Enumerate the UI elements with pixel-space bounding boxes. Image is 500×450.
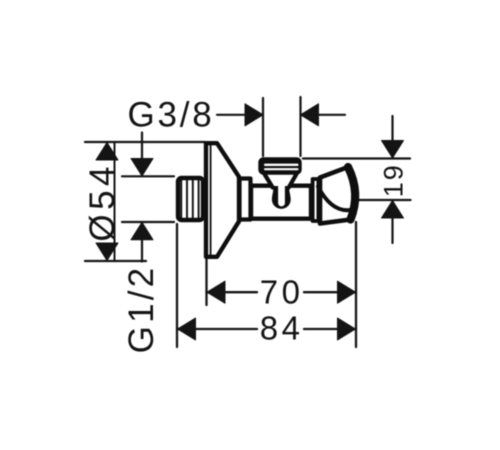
node: G3/8 right-pointing arrow	[245, 104, 263, 126]
outlet cap stripe 2	[264, 168, 299, 170]
node: 70 left arrow	[207, 281, 225, 303]
node: G3/8 left-pointing arrow	[301, 104, 319, 126]
node: Ø54 down arrow	[96, 243, 118, 261]
valve stem keyhole black	[272, 186, 291, 209]
thread lines	[180, 179, 182, 220]
node: 84 left arrow	[178, 318, 196, 340]
wire: G1/2 lower tail	[141, 240, 143, 261]
wire: Ø54 bottom extension line	[85, 260, 146, 262]
wire: Ø54 top extension line	[85, 141, 205, 143]
wire: 84 dimension line left part	[177, 328, 257, 330]
collar ring	[240, 179, 251, 220]
svg-text:84: 84	[260, 310, 304, 347]
wire: 19 top extension line	[303, 157, 410, 159]
outlet neck left slant	[265, 175, 273, 188]
wire: 70 left extension line	[205, 259, 207, 305]
handle right face crescent	[348, 167, 355, 220]
wire: Ø54 dimension line	[114, 142, 116, 261]
svg-text:Ø54: Ø54	[83, 162, 122, 242]
svg-text:G1/2: G1/2	[122, 265, 161, 354]
valve stem slot white	[278, 184, 285, 206]
wire: 70 dimension line left part	[207, 291, 258, 293]
wire: 70 dimension line right part	[304, 291, 356, 293]
wire: 19 bottom extension line	[359, 199, 411, 201]
svg-text:19: 19	[379, 163, 409, 197]
wire: 84 right extension line	[355, 222, 357, 347]
handle inner swoosh	[318, 187, 351, 211]
wire: G3/8 right extension line	[299, 97, 301, 156]
wire: G1/2 top extension line	[122, 175, 174, 177]
outlet cap body	[258, 157, 301, 174]
node: Ø54 up arrow	[96, 143, 118, 161]
wire: 19 upper tail	[391, 116, 393, 141]
wire: 84 left extension line	[176, 224, 178, 347]
node: G1/2 up arrow	[131, 222, 153, 240]
svg-text:G3/8: G3/8	[127, 96, 214, 135]
node: 19 down arrow	[382, 141, 404, 159]
wire: G3/8 leader line left	[217, 114, 247, 116]
outlet neck white fill	[263, 172, 298, 189]
handle knob body	[320, 167, 355, 224]
thread G1/2 body	[178, 178, 203, 220]
wire: G1/2 bottom extension line	[122, 221, 174, 223]
wire: G1/2 upper tail	[141, 133, 143, 159]
wire: G3/8 tail right	[319, 114, 346, 116]
handle base plate	[313, 179, 319, 221]
outlet neck right slant	[289, 175, 297, 188]
wire: 19 lower tail	[391, 219, 393, 244]
flange cone outline	[206, 143, 239, 257]
node: 84 right arrow	[338, 318, 356, 340]
svg-text:70: 70	[260, 274, 304, 311]
valve body drawing	[178, 143, 355, 257]
wire: 84 dimension line right part	[304, 328, 356, 330]
outlet cap stripe 1	[264, 164, 299, 166]
body tube	[251, 186, 311, 219]
node: 70 right arrow	[338, 281, 356, 303]
node: G1/2 down arrow	[131, 159, 153, 177]
wire: G3/8 left extension line	[262, 98, 264, 156]
node: 19 up arrow	[382, 201, 404, 219]
flange left face inner line	[210, 145, 212, 255]
